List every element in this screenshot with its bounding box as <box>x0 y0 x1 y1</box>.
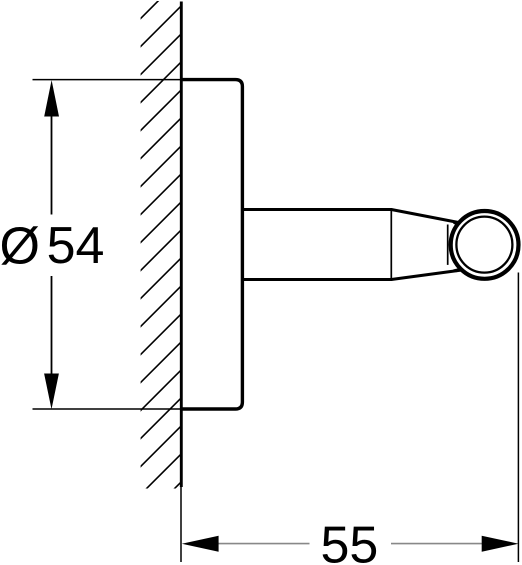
taper-ring bottom merge fill <box>453 268 462 272</box>
arrow up <box>44 80 59 116</box>
svg-text:55: 55 <box>321 516 379 565</box>
ring inner circle <box>456 217 512 273</box>
extension line bottom-right <box>517 273 519 563</box>
ring outer circle <box>451 211 519 279</box>
arm top edge <box>243 208 392 211</box>
ring junction line <box>447 225 449 265</box>
taper junction line <box>390 208 392 281</box>
wall hatching <box>130 0 192 533</box>
wall face line <box>180 2 183 488</box>
taper bottom edge <box>391 270 461 279</box>
svg-text:54: 54 <box>47 217 105 275</box>
extension line bottom-left <box>180 487 182 562</box>
arrow left <box>182 536 219 552</box>
extension line bottom <box>33 408 182 410</box>
extension line top <box>33 79 182 81</box>
arm bottom edge <box>243 278 392 281</box>
taper-ring top merge fill <box>453 221 461 226</box>
taper top edge <box>391 210 460 223</box>
arrow right <box>482 536 519 552</box>
vertical dimension line upper segment <box>51 115 53 215</box>
svg-text:Ø: Ø <box>0 218 40 276</box>
arrow down <box>44 374 59 410</box>
vertical dimension line lower segment <box>51 276 53 375</box>
horizontal dimension line left segment <box>219 543 310 545</box>
mounting plate <box>181 80 242 409</box>
horizontal dimension line right segment <box>391 543 482 545</box>
